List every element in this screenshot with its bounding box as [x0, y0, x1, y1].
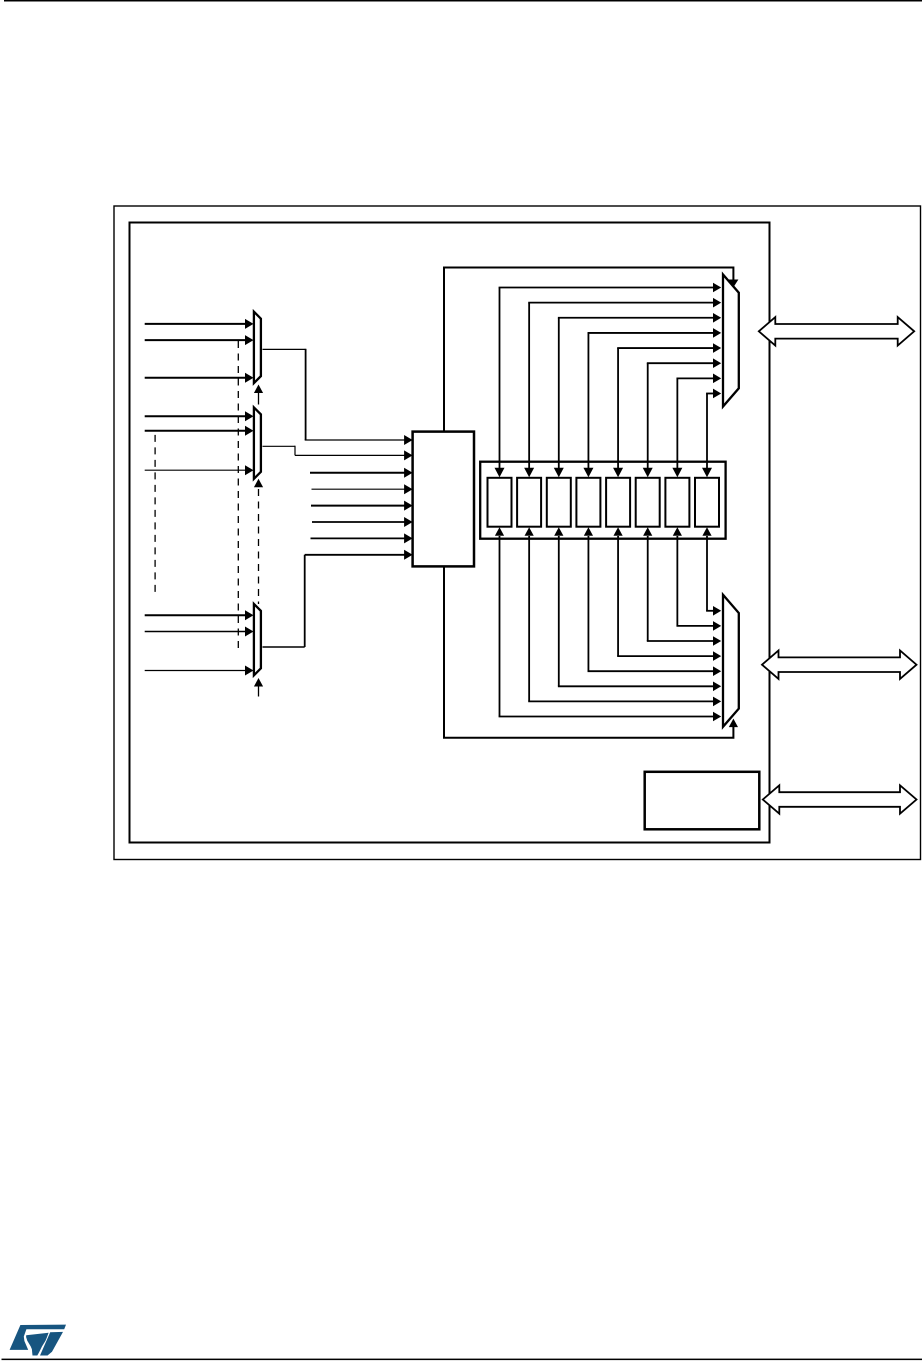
bus wire register 8 to lower mux: [702, 527, 711, 536]
register cell 8: [695, 478, 719, 527]
bus wire register 5 to lower mux: [613, 527, 622, 536]
multiplexer A (upper-left): [254, 312, 261, 383]
wire mux C output: [263, 646, 305, 648]
input wire A3: [145, 377, 247, 379]
bus wire register 1 to upper mux: [499, 287, 714, 289]
input wire B2: [145, 430, 247, 432]
register cell 1: [488, 478, 512, 527]
ST Microelectronics logo: [10, 1325, 66, 1356]
wire mux A output: [263, 348, 306, 350]
select arrow mux C: [254, 678, 263, 687]
multiplexer E (lower-right): [723, 595, 739, 727]
register cell 7: [665, 478, 689, 527]
wire mux B output: [263, 445, 296, 447]
select arrow mux B: [254, 479, 263, 488]
register cell 4: [576, 478, 600, 527]
top rule: [4, 0, 922, 2]
multiplexer D (upper-right): [723, 275, 739, 407]
bus wire register 7 to upper mux: [676, 377, 713, 379]
bus wire register 3 to upper mux: [558, 317, 714, 319]
bus wire register 6 to lower mux: [643, 527, 652, 536]
input wire B3: [145, 469, 247, 471]
bus wire register 8 to upper mux: [706, 392, 713, 394]
bus wire register 6 to upper mux: [647, 362, 714, 364]
input wire C3: [145, 670, 247, 672]
register cell 5: [606, 478, 630, 527]
bidirectional bus arrow 1 (top): [759, 317, 914, 345]
input wire C1: [145, 614, 247, 616]
input wire A1: [145, 323, 247, 325]
bidirectional bus arrow 2 (middle): [762, 651, 917, 679]
input wire row 6: [312, 521, 405, 523]
bus wire register 1 to lower mux: [495, 527, 504, 536]
central block (data bus driver): [413, 432, 474, 567]
bus wire register 3 to lower mux: [554, 527, 563, 536]
input wire row 3: [310, 472, 405, 474]
input wire B1: [145, 415, 247, 417]
bottom rule: [2, 1359, 922, 1361]
inner frame box: [130, 223, 770, 843]
wire bottom loop from central block to lower-right mux: [444, 566, 733, 737]
bus wire register 5 to upper mux: [617, 347, 713, 349]
bus wire register 7 to lower mux: [673, 527, 682, 536]
bus wire register 2 to upper mux: [528, 302, 713, 304]
outer frame box: [114, 206, 921, 860]
bus wire register 2 to lower mux: [525, 527, 534, 536]
peripheral interface block (bottom right): [645, 772, 760, 830]
input wire row 7: [311, 537, 405, 539]
register bank box: [480, 462, 725, 539]
register cell 6: [636, 478, 660, 527]
multiplexer C (lower-left): [254, 604, 261, 675]
wire top loop from central block to upper-right mux: [444, 268, 733, 432]
register cell 3: [547, 478, 571, 527]
dashed line 1: [237, 341, 239, 650]
input wire A2: [145, 339, 247, 341]
register cell 2: [517, 478, 541, 527]
select arrow mux A: [258, 393, 260, 405]
input wire C2: [145, 631, 247, 633]
bus wire register 4 to lower mux: [584, 527, 593, 536]
bus wire register 4 to upper mux: [588, 332, 714, 334]
bidirectional bus arrow 3 (bottom): [763, 785, 917, 813]
multiplexer B (middle-left): [254, 407, 261, 478]
input wire row 4: [312, 488, 405, 490]
dashed line 2: [154, 435, 156, 597]
input wire row 5: [311, 505, 405, 507]
